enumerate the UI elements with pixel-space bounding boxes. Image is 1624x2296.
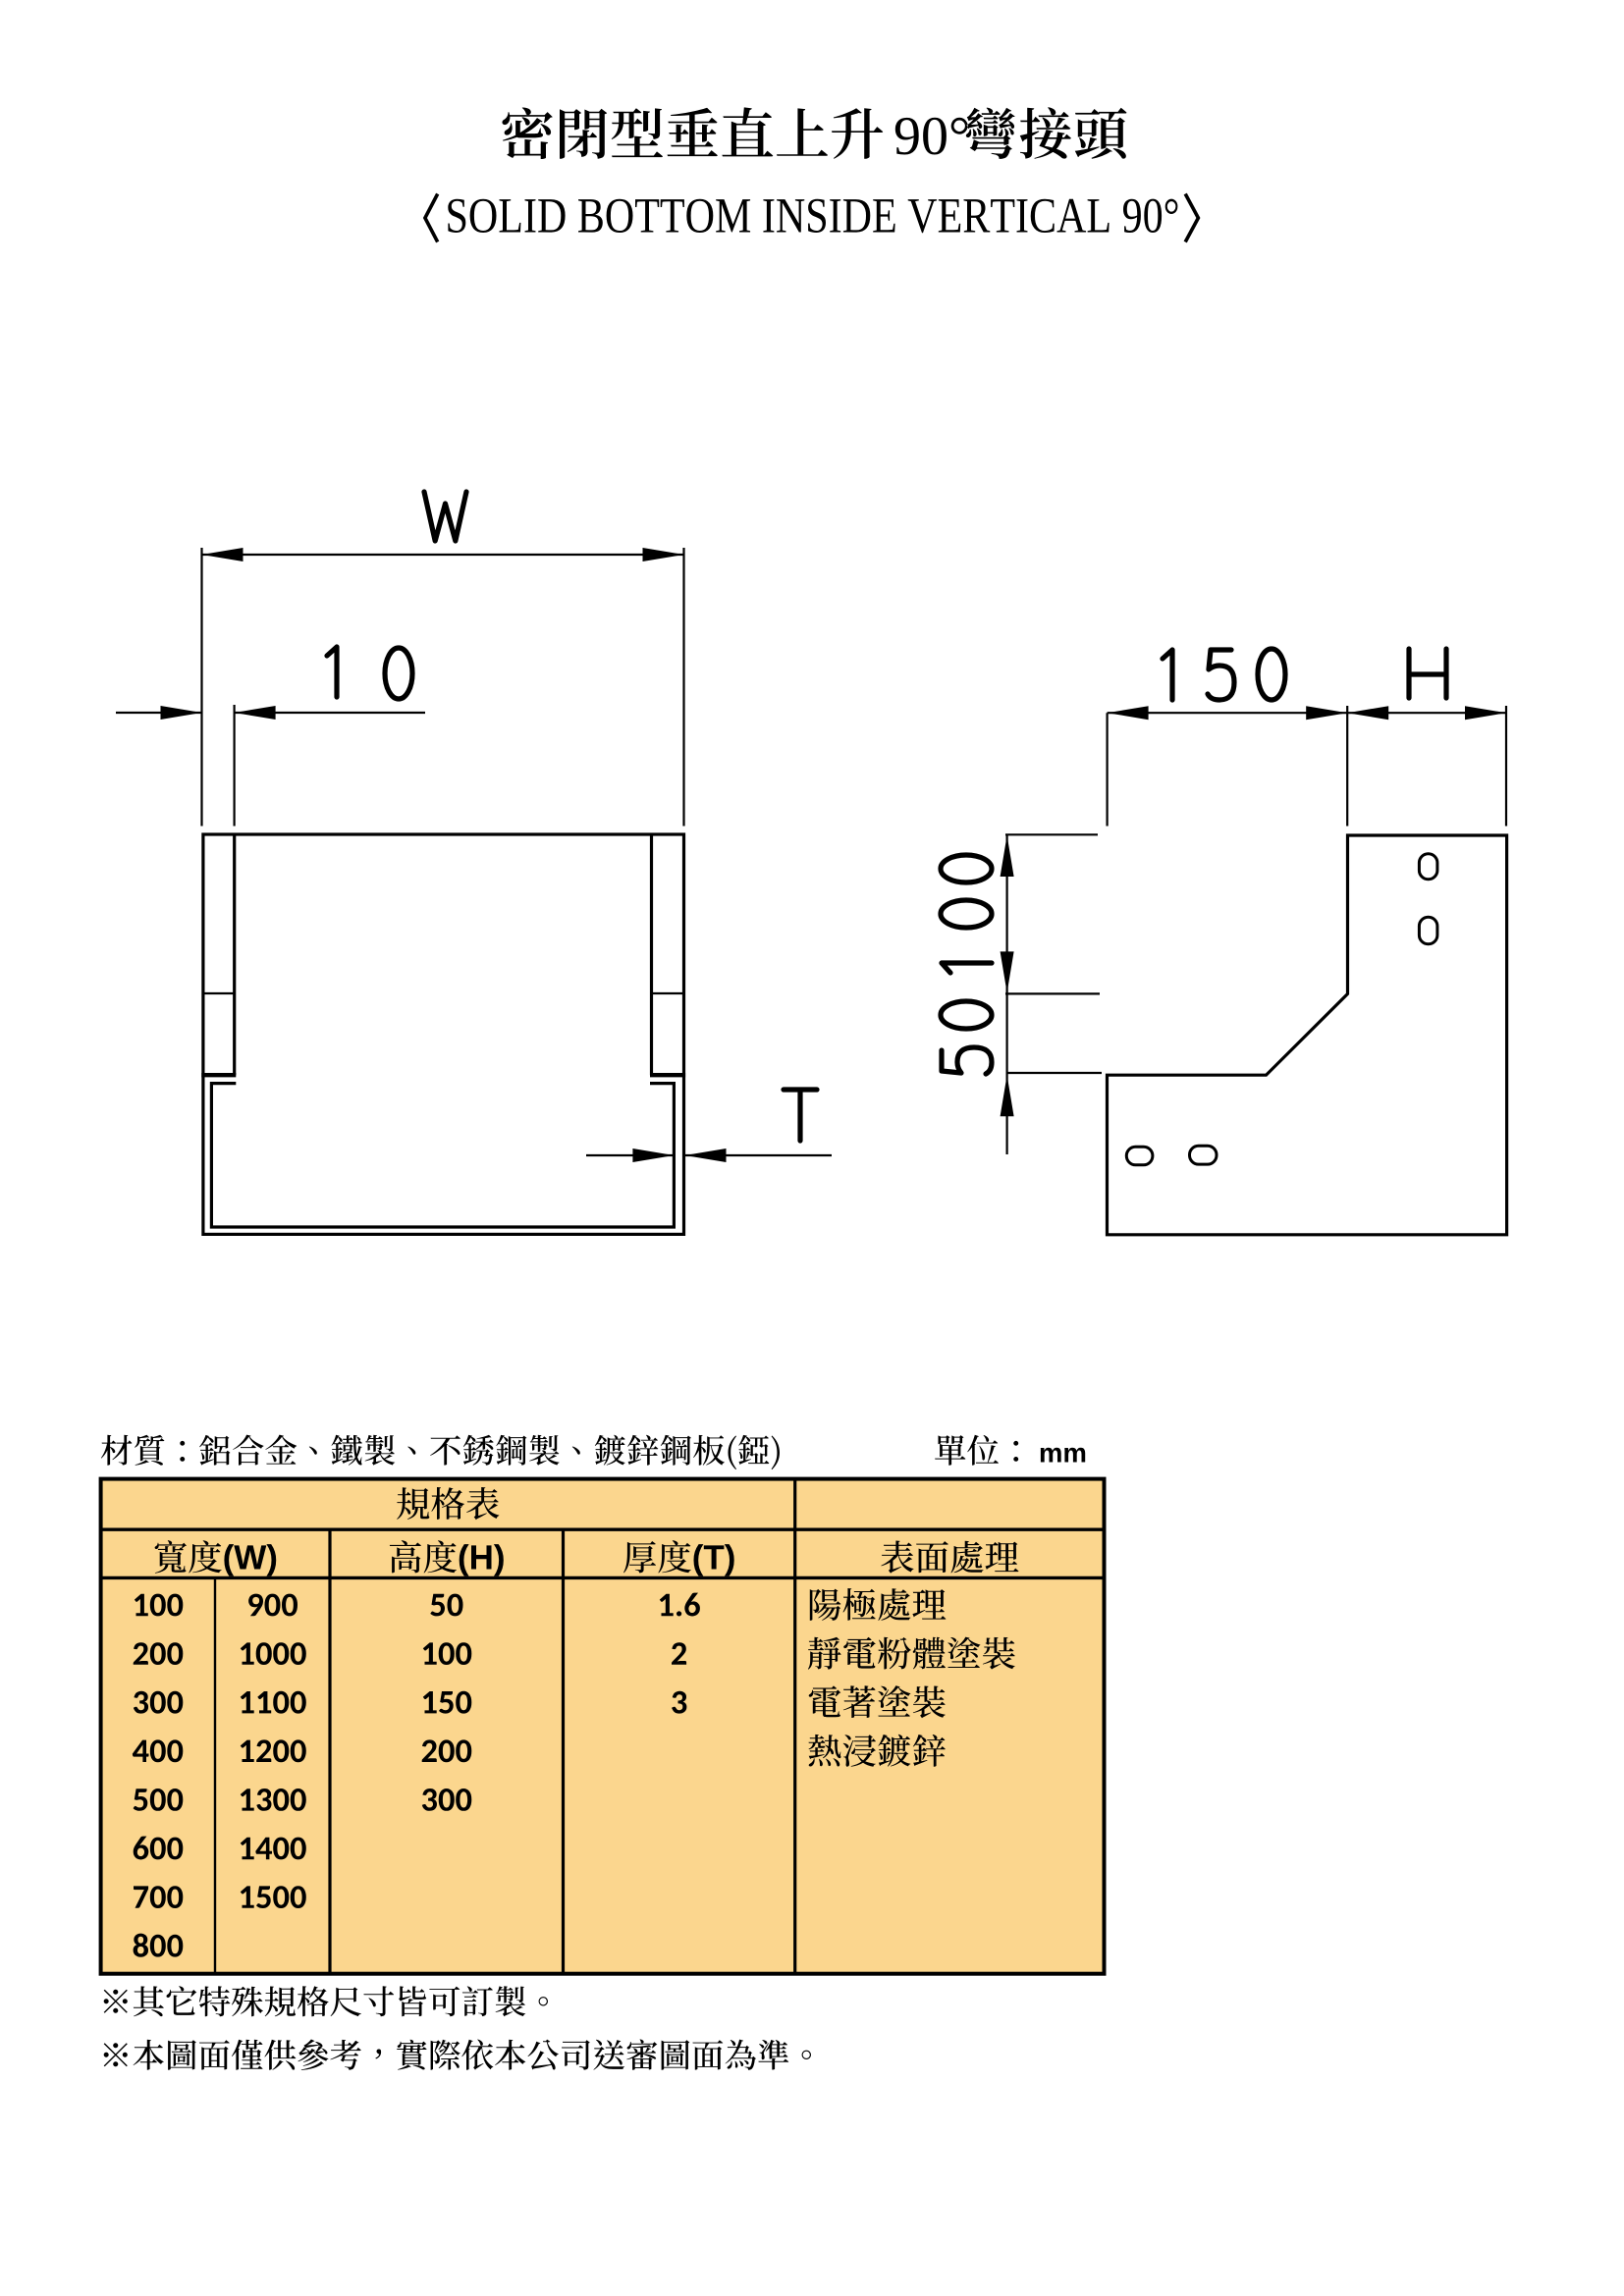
dim label 100 (rotated) [941,855,992,973]
dim line 150 and H [1108,712,1506,714]
table column divider W/H [328,1529,331,1974]
extension line 150/H middle [1346,706,1348,827]
left view: joint line right [652,992,684,994]
dim line W [202,554,684,556]
left view: cover inner wall left [233,834,236,1075]
dim label 150 digit 1 [1163,650,1172,700]
table body numbers: height column [422,1594,472,1811]
slot hole vertical 2 [1419,917,1437,944]
dim 10 arrow pointing right [161,706,202,720]
dim W arrow right [643,548,684,561]
slot hole horizontal 1 [1126,1147,1153,1165]
table column divider surface [793,1479,796,1974]
table outer border [101,1479,1105,1974]
table column divider H/T [562,1529,565,1974]
extension line W left [200,548,202,827]
left view: cover skirt bottom right [650,1073,685,1077]
left view: cover/body outer rectangle [203,834,684,1234]
dim 150 arrow left [1108,706,1149,720]
slot hole horizontal 2 [1190,1146,1218,1164]
dim label 10 digit 1 [327,647,337,697]
table column sub-divider W [214,1577,216,1973]
dim label 10 digit 0 [385,648,412,699]
subtitle angle bracket left [425,194,438,242]
dim 100 arrow down [1001,951,1014,992]
dim line 10 outside-left tail [116,712,202,714]
footnote 2 [104,2040,811,2070]
slot hole vertical 1 [1419,854,1437,880]
table body numbers: width column b [241,1594,306,1908]
dim 100 arrow up [1001,835,1014,877]
header 厚度(T) [623,1540,734,1576]
dim line T right tail [685,1154,833,1156]
extension line H right [1505,706,1507,827]
title: closed-type vertical riser 90-degree elbow [502,107,1126,159]
dim H arrow right [1465,706,1506,720]
dim label T [784,1090,817,1141]
dim label H [1409,649,1446,698]
table body: surface treatment texts [808,1588,1015,1767]
unit line 單位 mm [935,1435,1085,1466]
dim label 50 (rotated) [941,1001,992,1074]
header 表面處理 [881,1541,1018,1574]
right view: elbow side profile [1108,835,1507,1235]
dim 10 arrow pointing left [235,706,276,720]
dim label 150 digit 0 [1258,649,1285,700]
left view: cover inner wall right [650,834,653,1075]
dim T arrow pointing left [685,1148,727,1162]
table divider row1/row2 [101,1527,1105,1530]
vertical dim line 100/50 [1005,835,1007,1154]
extension line 150 left [1106,713,1108,826]
dim H arrow left [1347,706,1388,720]
dim label 150 digit 5 [1208,650,1234,700]
footnote 1 [104,1986,548,2016]
extension line 100 top [1005,833,1098,835]
dim 50 arrow up [1001,1075,1014,1116]
left view: tray inner surface [211,1084,674,1227]
dim line 10 right tail [235,712,425,714]
header 寬度(W) [155,1540,277,1576]
extension line 10 [234,705,236,827]
table divider row2/body [101,1576,1105,1579]
dim label W [424,492,466,541]
extension line 50 bottom [1006,1072,1102,1074]
left view: cover skirt bottom left [201,1073,236,1077]
extension line W right [682,548,684,827]
left view: joint line left [203,992,235,994]
dim W arrow left [202,548,244,561]
header 高度(H) [390,1540,504,1576]
table body numbers: width column a [133,1594,184,1957]
subtitle angle bracket right [1185,194,1198,242]
extension line 100/50 middle [1005,992,1100,994]
subtitle: SOLID BOTTOM INSIDE VERTICAL 90 [448,199,1177,234]
dim T arrow pointing right [632,1148,674,1162]
dim 150 arrow right [1306,706,1347,720]
material line 材質 [101,1435,780,1470]
dim line T left tail [586,1154,674,1156]
table body numbers: thickness column [660,1593,700,1714]
table fill [101,1479,1105,1974]
table title 規格表 [397,1487,499,1520]
